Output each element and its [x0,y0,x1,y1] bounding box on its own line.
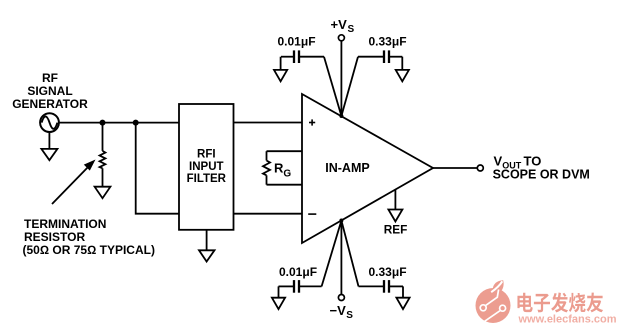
REF pin ground [388,190,402,222]
svg-text:(50Ω OR 75Ω TYPICAL): (50Ω OR 75Ω TYPICAL) [23,243,155,257]
output wire [433,167,477,169]
svg-text:FILTER: FILTER [187,173,227,185]
svg-text:S: S [346,310,353,321]
capacitor C1 0.01uF (top left) [281,50,341,116]
ground below generator [41,133,57,161]
svg-text:GENERATOR: GENERATOR [12,97,88,111]
pin + label [309,119,315,125]
wire filter to in-amp + input [234,122,303,124]
-VS supply terminal [338,221,344,301]
svg-text:TERMINATION: TERMINATION [24,217,106,231]
svg-text:+V: +V [331,17,348,32]
label RFI INPUT FILTER [187,149,227,186]
svg-text:0.01μF: 0.01μF [279,265,317,279]
svg-text:www.elecfans.com: www.elecfans.com [518,314,617,326]
ground below filter [199,230,215,262]
svg-text:−V: −V [330,303,347,318]
ground below C1 [274,57,287,82]
ground below termination resistor [95,187,111,199]
ground below C2 [396,57,409,82]
pin - label [308,213,316,215]
label +VS [331,17,355,35]
svg-text:REF: REF [384,223,408,237]
capacitor C2 0.33uF (top right) [341,50,402,116]
ground below C3 [272,286,285,309]
svg-text:INPUT: INPUT [189,161,224,173]
ground below C4 [396,286,409,309]
node supply join on bottom edge [339,219,343,223]
svg-text:RESISTOR: RESISTOR [24,230,85,244]
capacitor C4 0.33uF (bottom right) [341,221,403,293]
svg-text:0.33μF: 0.33μF [369,265,407,279]
svg-text:0.33μF: 0.33μF [369,35,407,49]
svg-text:V: V [494,154,503,169]
svg-text:RFI: RFI [197,149,216,161]
resistor RG between gain pins [263,151,302,185]
svg-text:IN-AMP: IN-AMP [325,161,369,175]
svg-text:SCOPE OR DVM: SCOPE OR DVM [493,167,590,181]
wire generator to RFI filter input [59,122,179,124]
svg-text:SIGNAL: SIGNAL [27,84,72,98]
svg-text:0.01μF: 0.01μF [278,35,316,49]
watermark text [517,293,616,326]
svg-text:G: G [283,169,291,180]
arrow pointing to termination resistor [52,160,96,205]
label -VS [330,303,354,321]
output terminal node [477,165,483,171]
label RF SIGNAL GENERATOR [12,71,88,111]
wire lower branch to filter [136,123,179,214]
svg-text:RF: RF [42,71,58,85]
label VOUT TO SCOPE OR DVM [493,154,590,182]
watermark logo elecfans [476,280,511,323]
svg-text:S: S [348,24,355,35]
junction node at lower branch [133,120,139,126]
+VS supply terminal [338,35,344,117]
junction node at termination resistor [100,120,106,126]
capacitor C3 0.01uF (bottom left) [279,221,342,293]
wire filter to in-amp - input [234,213,303,215]
op-amp / in-amp triangle U1 [302,94,433,243]
label RG [274,161,291,180]
label TERMINATION RESISTOR (50 OR 75 TYPICAL) [23,217,155,257]
termination resistor R (zigzag) [100,123,106,187]
RF signal generator source symbol [40,113,59,132]
RFI input filter block [179,104,234,230]
svg-text:TO: TO [524,154,542,169]
node supply join on top edge [339,114,343,118]
